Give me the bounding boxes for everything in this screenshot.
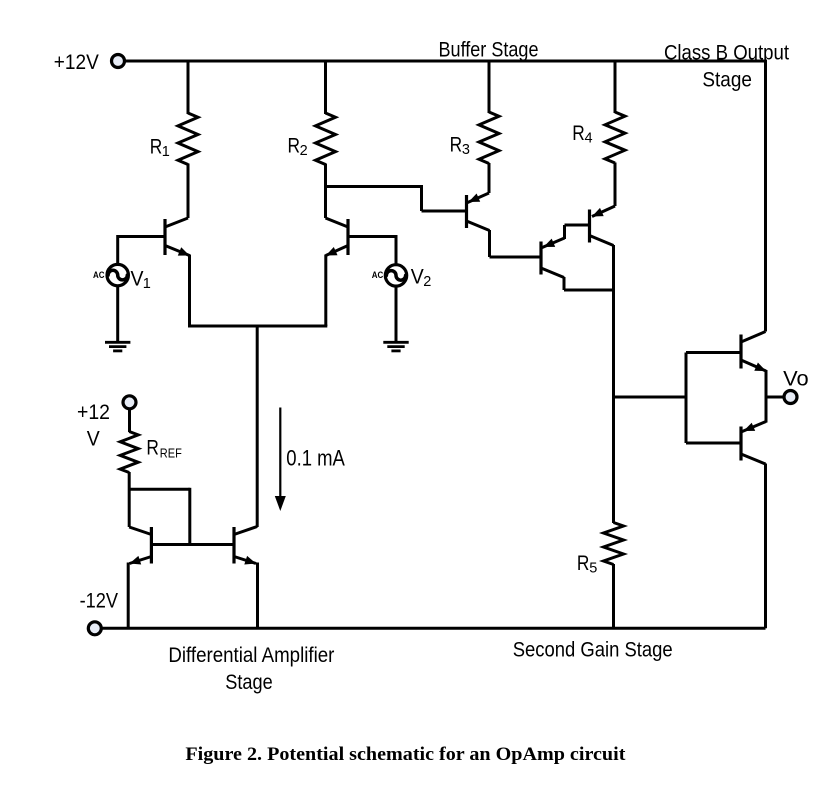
svg-text:Stage: Stage	[225, 670, 273, 694]
svg-text:V: V	[87, 426, 101, 450]
svg-text:Stage: Stage	[702, 68, 752, 92]
svg-text:Vo: Vo	[783, 367, 809, 391]
svg-text:Second Gain Stage: Second Gain Stage	[513, 638, 673, 662]
svg-text:Class B Output: Class B Output	[664, 41, 789, 65]
svg-text:AC: AC	[93, 270, 105, 281]
svg-text:R: R	[450, 133, 463, 157]
svg-text:0.1 mA: 0.1 mA	[286, 446, 345, 471]
svg-text:4: 4	[585, 130, 593, 146]
svg-text:Buffer Stage: Buffer Stage	[439, 38, 539, 62]
svg-text:R: R	[577, 551, 590, 575]
svg-text:2: 2	[423, 274, 431, 290]
svg-text:R: R	[146, 435, 159, 459]
svg-text:+12V: +12V	[54, 50, 100, 74]
svg-text:R: R	[288, 134, 301, 158]
svg-text:Differential Amplifier: Differential Amplifier	[168, 643, 334, 667]
svg-text:REF: REF	[160, 446, 182, 460]
svg-text:1: 1	[162, 144, 170, 160]
svg-text:AC: AC	[372, 270, 384, 281]
svg-text:1: 1	[143, 276, 151, 292]
svg-text:3: 3	[462, 142, 470, 158]
svg-text:2: 2	[300, 143, 308, 159]
svg-text:R: R	[572, 121, 585, 145]
svg-text:Figure 2. Potential schematic: Figure 2. Potential schematic for an OpA…	[185, 744, 626, 765]
svg-text:R: R	[150, 135, 163, 159]
svg-text:5: 5	[589, 560, 597, 576]
svg-text:-12V: -12V	[80, 588, 119, 612]
svg-text:+12: +12	[77, 400, 110, 424]
